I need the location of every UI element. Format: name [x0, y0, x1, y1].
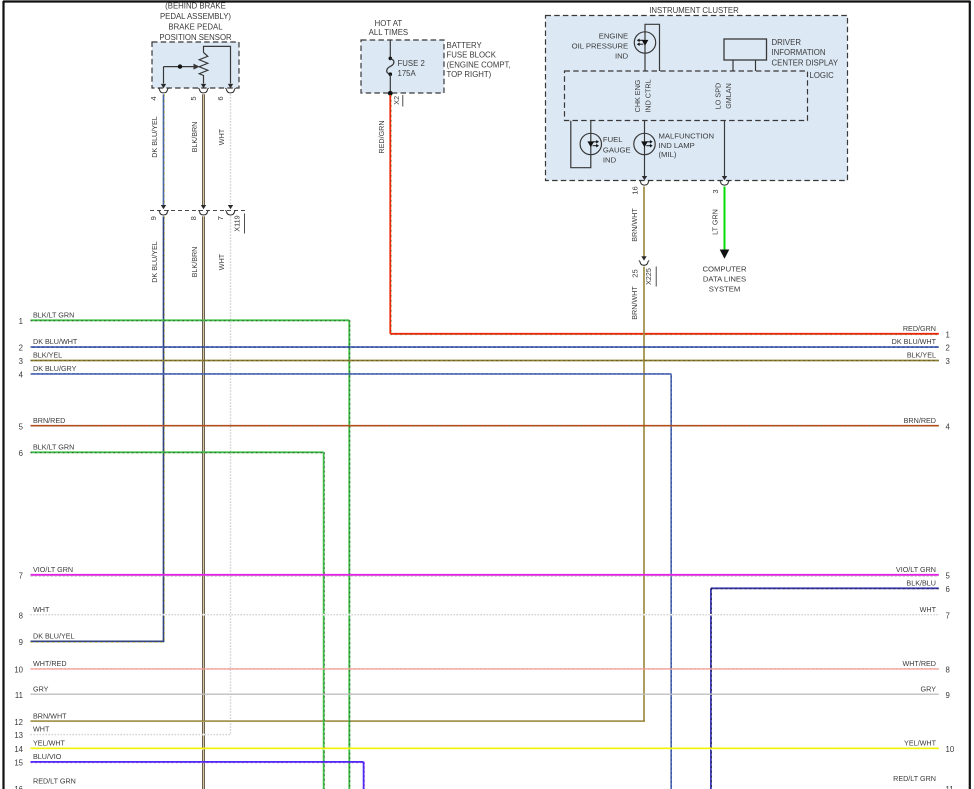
- svg-text:(BEHIND BRAKE: (BEHIND BRAKE: [165, 1, 226, 10]
- svg-text:25: 25: [631, 269, 640, 277]
- wire 12 BRN/WHT label: [14, 711, 67, 727]
- engine oil pressure ind label: [572, 31, 629, 60]
- malfunction indicator lamp wire: [642, 121, 647, 181]
- svg-text:2: 2: [19, 344, 23, 353]
- HOT AT ALL TIMES label: [369, 19, 408, 37]
- svg-text:BRN/WHT: BRN/WHT: [630, 208, 639, 242]
- svg-text:15: 15: [14, 759, 23, 768]
- wire 14 YEL/WHT: [14, 739, 955, 755]
- svg-text:7: 7: [946, 611, 950, 620]
- svg-text:X225: X225: [644, 268, 653, 285]
- wire 13 WHT: [14, 725, 231, 741]
- wire 8 WHT: [19, 605, 950, 621]
- wire 10 WHT/RED: [14, 659, 950, 675]
- svg-text:ALL TIMES: ALL TIMES: [369, 28, 408, 37]
- lo spd gmlan wire inside cluster: [722, 121, 727, 181]
- label BRN/WHT below X225: [630, 286, 639, 320]
- svg-text:PEDAL ASSEMBLY): PEDAL ASSEMBLY): [160, 12, 231, 21]
- engine oil pressure indicator wiring loop: [645, 24, 660, 71]
- svg-text:DRIVER: DRIVER: [772, 38, 802, 47]
- svg-text:IND LAMP: IND LAMP: [659, 141, 695, 150]
- svg-text:14: 14: [14, 745, 23, 754]
- engine oil pressure indicator LED: [634, 32, 655, 53]
- svg-text:6: 6: [19, 449, 23, 458]
- fuse FUSE 2 175A: [387, 40, 425, 93]
- svg-text:1: 1: [19, 317, 23, 326]
- label BRN/WHT above X225: [630, 208, 639, 242]
- svg-text:BRN/RED: BRN/RED: [904, 416, 936, 425]
- wire BLK/BRN from sensor pin 5 to X119: [201, 94, 206, 209]
- wire from potentiometer top to pin 6: [204, 46, 231, 83]
- svg-text:5: 5: [946, 571, 951, 580]
- svg-text:1: 1: [946, 330, 950, 339]
- driver information center display label: [772, 38, 839, 67]
- svg-text:3: 3: [711, 189, 720, 193]
- brake pedal position sensor label: [159, 1, 232, 42]
- svg-text:(ENGINE COMPT,: (ENGINE COMPT,: [447, 60, 511, 69]
- svg-text:8: 8: [946, 666, 950, 675]
- svg-text:12: 12: [14, 718, 23, 727]
- svg-text:LOGIC: LOGIC: [810, 71, 835, 80]
- svg-text:VIO/LT GRN: VIO/LT GRN: [33, 565, 73, 574]
- svg-text:DK BLU/YEL: DK BLU/YEL: [33, 632, 75, 641]
- svg-text:GMLAN: GMLAN: [724, 83, 733, 109]
- wiper arrow of potentiometer: [164, 64, 200, 70]
- wire DK BLU/YEL from sensor pin 4 to X119: [161, 94, 166, 209]
- svg-text:BLU/VIO: BLU/VIO: [33, 752, 62, 761]
- svg-text:BATTERY: BATTERY: [447, 41, 483, 50]
- svg-text:BLK/LT GRN: BLK/LT GRN: [33, 442, 74, 451]
- svg-text:BRN/WHT: BRN/WHT: [33, 711, 67, 720]
- wire LT GRN from cluster pin 3 to data lines arrow: [724, 187, 726, 251]
- svg-text:WHT: WHT: [920, 605, 937, 614]
- svg-text:5: 5: [19, 422, 24, 431]
- svg-text:10: 10: [14, 666, 23, 675]
- wire 16 RED/LT GRN labels: [14, 774, 953, 789]
- wire WHT from X119 pin 7 down to row 13: [230, 216, 232, 734]
- svg-text:(MIL): (MIL): [659, 150, 677, 159]
- svg-text:4: 4: [946, 422, 951, 431]
- svg-text:DK BLU/YEL: DK BLU/YEL: [150, 116, 159, 158]
- logic module box: [565, 71, 835, 121]
- svg-text:WHT/RED: WHT/RED: [902, 659, 936, 668]
- cluster pin 3: [711, 181, 730, 194]
- label BLK/BRN below X119: [190, 247, 199, 278]
- svg-text:RED/GRN: RED/GRN: [903, 324, 936, 333]
- svg-text:13: 13: [14, 731, 23, 740]
- svg-text:BLK/BRN: BLK/BRN: [190, 247, 199, 278]
- connector X119: [149, 210, 245, 233]
- svg-text:WHT: WHT: [217, 128, 226, 145]
- wire 6 BLK/LT GRN: [19, 442, 325, 789]
- wire 3 BLK/YEL: [19, 351, 950, 367]
- svg-text:7: 7: [19, 571, 23, 580]
- svg-text:RED/GRN: RED/GRN: [377, 120, 386, 153]
- svg-text:9: 9: [19, 638, 23, 647]
- connector X225: [631, 261, 657, 287]
- sensor pin 5: [189, 84, 209, 101]
- connector X2 junction: [388, 91, 403, 107]
- wire from potentiometer bottom to pin 5: [203, 78, 205, 84]
- label DK BLU/YEL below X119: [150, 241, 159, 283]
- wire 2 DK BLU/WHT: [19, 337, 950, 353]
- wire BLK/BLU right row 6: [711, 578, 950, 789]
- svg-text:8: 8: [19, 611, 23, 620]
- wire RED/GRN from X2 down and right to right edge: [390, 95, 939, 335]
- svg-text:9: 9: [946, 691, 950, 700]
- svg-text:HOT AT: HOT AT: [375, 19, 403, 28]
- cluster pin 16: [631, 181, 650, 195]
- wire BRN/WHT from X225 down to row 12 and left: [31, 267, 645, 722]
- instrument cluster title: [649, 6, 739, 15]
- svg-text:WHT/RED: WHT/RED: [33, 659, 67, 668]
- fuel gauge indicator wiring loop: [571, 121, 591, 168]
- svg-text:10: 10: [946, 745, 955, 754]
- svg-text:TOP RIGHT): TOP RIGHT): [447, 70, 492, 79]
- svg-text:FUEL: FUEL: [603, 135, 623, 144]
- wire 7 VIO/LT GRN: [19, 565, 951, 581]
- svg-text:DK BLU/GRY: DK BLU/GRY: [33, 364, 77, 373]
- svg-text:INSTRUMENT CLUSTER: INSTRUMENT CLUSTER: [649, 6, 739, 15]
- svg-text:BLK/BLU: BLK/BLU: [906, 578, 936, 587]
- svg-text:6: 6: [216, 96, 225, 100]
- fuel gauge ind label: [603, 135, 631, 164]
- svg-text:BRN/WHT: BRN/WHT: [630, 286, 639, 320]
- svg-text:11: 11: [946, 785, 954, 789]
- svg-text:VIO/LT GRN: VIO/LT GRN: [896, 565, 936, 574]
- wire from wiper to pin 4: [163, 67, 165, 84]
- svg-text:X2: X2: [392, 96, 401, 105]
- svg-text:MALFUNCTION: MALFUNCTION: [659, 131, 715, 140]
- svg-text:ENGINE: ENGINE: [599, 31, 628, 40]
- svg-text:7: 7: [216, 216, 225, 220]
- svg-text:11: 11: [15, 691, 23, 700]
- svg-text:DK BLU/WHT: DK BLU/WHT: [33, 337, 78, 346]
- svg-text:X119: X119: [233, 215, 242, 231]
- svg-text:175A: 175A: [398, 69, 417, 78]
- svg-text:3: 3: [946, 357, 950, 366]
- svg-text:YEL/WHT: YEL/WHT: [904, 739, 937, 748]
- label LT GRN: [711, 209, 720, 235]
- fuel gauge indicator LED: [580, 133, 601, 154]
- wire 9 DK BLU/YEL: [19, 632, 165, 648]
- sensor pin 4: [149, 84, 169, 101]
- malfunction indicator lamp LED: [634, 133, 655, 154]
- svg-text:COMPUTER: COMPUTER: [703, 265, 747, 274]
- svg-text:IND: IND: [603, 156, 617, 165]
- svg-text:BLK/BRN: BLK/BRN: [190, 122, 199, 153]
- wire 4 DK BLU/GRY: [19, 364, 672, 789]
- wire 11 GRY: [15, 684, 950, 700]
- svg-text:BRAKE PEDAL: BRAKE PEDAL: [168, 23, 223, 32]
- svg-text:2: 2: [946, 344, 950, 353]
- battery fuse block box: [361, 40, 444, 93]
- svg-text:CHK ENG: CHK ENG: [633, 79, 642, 112]
- svg-text:16: 16: [14, 785, 23, 789]
- label WHT: [217, 128, 226, 145]
- svg-text:LO SPD: LO SPD: [713, 83, 722, 109]
- malfunction ind lamp label: [659, 131, 715, 159]
- computer data lines system arrow: [720, 250, 730, 259]
- label DK BLU/YEL: [150, 116, 159, 158]
- sensor pin 6: [216, 84, 236, 101]
- svg-text:6: 6: [946, 585, 950, 594]
- svg-text:GAUGE: GAUGE: [603, 145, 631, 154]
- svg-text:FUSE 2: FUSE 2: [398, 59, 425, 68]
- svg-text:CENTER DISPLAY: CENTER DISPLAY: [772, 58, 839, 67]
- svg-text:DK BLU/WHT: DK BLU/WHT: [892, 337, 937, 346]
- wire BLK/BRN from X119 pin 8 down to page bottom: [202, 216, 205, 789]
- driver information center display: [724, 39, 767, 71]
- wire 5 BRN/RED: [19, 416, 951, 432]
- svg-text:16: 16: [631, 186, 640, 194]
- junction dot on wiper wire: [178, 64, 182, 68]
- svg-text:IND: IND: [615, 52, 629, 61]
- wire DK BLU/YEL from X119 pin 9 down to row 9: [164, 216, 165, 641]
- svg-text:GRY: GRY: [33, 684, 49, 693]
- brake pedal position sensor box: [152, 42, 239, 88]
- logic pin label LO SPD GMLAN: [713, 83, 733, 109]
- wire RED/GRN right row 1: [903, 324, 950, 340]
- wire 1 BLK/LT GRN: [19, 310, 350, 789]
- svg-text:9: 9: [149, 216, 158, 220]
- svg-text:FUSE BLOCK: FUSE BLOCK: [447, 51, 497, 60]
- logic pin label CHK ENG IND CTRL: [633, 79, 653, 112]
- svg-text:BLK/YEL: BLK/YEL: [907, 351, 936, 360]
- svg-text:4: 4: [149, 96, 158, 100]
- wire 15 BLU/VIO: [14, 752, 364, 789]
- svg-text:POSITION SENSOR: POSITION SENSOR: [159, 33, 232, 42]
- battery fuse block label: [447, 41, 511, 79]
- svg-text:WHT: WHT: [217, 253, 226, 270]
- svg-text:DATA LINES: DATA LINES: [703, 275, 746, 284]
- svg-text:4: 4: [19, 371, 24, 380]
- svg-text:INFORMATION: INFORMATION: [772, 48, 826, 57]
- svg-text:5: 5: [189, 96, 198, 100]
- svg-text:8: 8: [189, 216, 198, 220]
- label RED/GRN vertical: [377, 120, 386, 153]
- label WHT below X119: [217, 253, 226, 270]
- svg-text:RED/LT GRN: RED/LT GRN: [33, 776, 76, 785]
- wire WHT from sensor pin 6 to X119: [228, 94, 233, 209]
- computer data lines system label: [703, 265, 747, 294]
- potentiometer (sensor resistive element): [199, 53, 208, 78]
- svg-text:GRY: GRY: [921, 684, 937, 693]
- svg-text:WHT: WHT: [33, 725, 50, 734]
- svg-text:3: 3: [19, 357, 23, 366]
- svg-text:SYSTEM: SYSTEM: [709, 285, 741, 294]
- svg-text:RED/LT GRN: RED/LT GRN: [893, 774, 936, 783]
- svg-text:OIL PRESSURE: OIL PRESSURE: [572, 42, 629, 51]
- svg-text:DK BLU/YEL: DK BLU/YEL: [150, 241, 159, 283]
- svg-text:BLK/LT GRN: BLK/LT GRN: [33, 310, 74, 319]
- instrument cluster box: [546, 16, 848, 181]
- label BLK/BRN: [190, 122, 199, 153]
- svg-text:IND CTRL: IND CTRL: [644, 79, 653, 112]
- svg-text:YEL/WHT: YEL/WHT: [33, 739, 66, 748]
- svg-text:BLK/YEL: BLK/YEL: [33, 351, 62, 360]
- svg-text:BRN/RED: BRN/RED: [33, 416, 65, 425]
- svg-text:LT GRN: LT GRN: [711, 209, 720, 235]
- wire BRN/WHT from cluster pin 16 to X225: [641, 187, 646, 261]
- svg-text:WHT: WHT: [33, 605, 50, 614]
